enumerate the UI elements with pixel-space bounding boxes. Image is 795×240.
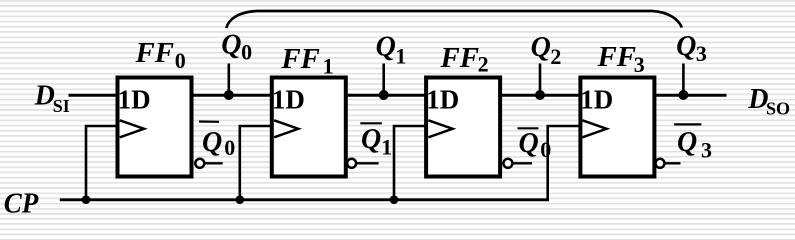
- svg-text:1D: 1D: [426, 84, 459, 114]
- flip-flop FF2 box: [426, 78, 500, 177]
- svg-text:D: D: [34, 80, 55, 111]
- node Q3 junction dot: [678, 90, 688, 100]
- svg-text:Q: Q: [519, 128, 539, 159]
- svg-text:2: 2: [478, 52, 489, 77]
- FF1 Qbar bubble: [347, 159, 356, 168]
- FF0 clock chevron: [120, 120, 144, 137]
- FF3 Qbar bubble: [656, 159, 665, 168]
- svg-text:Q: Q: [202, 127, 222, 158]
- svg-text:2: 2: [550, 44, 561, 69]
- FF2 clock chevron: [428, 120, 452, 137]
- wire Q1 stub up to label: [382, 64, 385, 96]
- feedback bracket from Q0 to Q3: [226, 11, 682, 28]
- svg-text:Q: Q: [221, 30, 241, 61]
- svg-text:1D: 1D: [580, 84, 613, 114]
- svg-text:CP: CP: [4, 189, 39, 219]
- wire Q2 stub up to label: [539, 64, 542, 96]
- svg-text:SI: SI: [53, 96, 70, 116]
- svg-text:FF: FF: [134, 38, 174, 69]
- wire FF2 clock riser: [394, 126, 430, 200]
- node Q1 junction dot: [379, 90, 389, 100]
- FF1 Qbar stub wire: [356, 162, 378, 164]
- svg-text:3: 3: [696, 41, 707, 66]
- svg-text:FF: FF: [596, 42, 636, 73]
- wire Q0 stub up to label: [228, 64, 231, 96]
- node Q2 junction dot: [535, 90, 545, 100]
- wire FF0 clock riser: [86, 126, 122, 200]
- FF1 clock chevron: [274, 120, 298, 137]
- svg-text:0: 0: [175, 48, 186, 73]
- node CP/FF1 junction dot: [236, 195, 245, 204]
- FF0 Qbar bubble: [195, 159, 204, 168]
- FF2 Qbar bubble: [503, 159, 512, 168]
- svg-text:1D: 1D: [118, 84, 151, 114]
- svg-text:FF: FF: [280, 44, 320, 75]
- svg-text:0: 0: [224, 135, 235, 160]
- svg-text:1: 1: [395, 44, 406, 69]
- svg-text:1D: 1D: [272, 84, 305, 114]
- wire CP rail: [60, 198, 549, 201]
- svg-text:1: 1: [381, 135, 392, 160]
- label Qbar2 overbar: [518, 127, 539, 129]
- label Qbar0 overbar: [199, 120, 219, 123]
- svg-text:3: 3: [701, 138, 712, 163]
- node CP/FF0 junction dot: [82, 195, 91, 204]
- svg-text:3: 3: [634, 52, 645, 77]
- svg-text:Q: Q: [676, 31, 696, 62]
- FF3 clock chevron: [582, 120, 606, 137]
- node Q0 junction dot: [224, 90, 234, 100]
- label Qbar1 overbar: [360, 122, 382, 124]
- FF2 Qbar stub wire: [513, 162, 533, 164]
- FF0 Qbar stub wire: [204, 162, 222, 164]
- flip-flop FF0 box: [118, 78, 192, 177]
- flip-flop FF3 box: [580, 78, 654, 177]
- svg-text:Q: Q: [361, 124, 381, 155]
- flip-flop FF1 box: [272, 78, 346, 177]
- node CP/FF2 junction dot: [390, 195, 399, 204]
- label Qbar3 overbar: [674, 123, 701, 125]
- svg-text:Q: Q: [677, 127, 697, 158]
- svg-text:0: 0: [241, 40, 252, 65]
- FF3 Qbar stub wire: [665, 162, 681, 164]
- svg-text:FF: FF: [439, 43, 479, 74]
- wire DSI to FF0 D input and Q bus through all stages to DSO: [69, 94, 727, 97]
- svg-text:SO: SO: [766, 99, 790, 119]
- svg-text:Q: Q: [531, 32, 551, 63]
- wire Q3 stub up to label: [682, 64, 685, 96]
- wire FF3 clock riser: [548, 126, 584, 200]
- wire FF1 clock riser: [240, 126, 276, 200]
- svg-text:1: 1: [323, 54, 334, 79]
- svg-text:0: 0: [540, 137, 551, 162]
- svg-text:Q: Q: [376, 31, 396, 62]
